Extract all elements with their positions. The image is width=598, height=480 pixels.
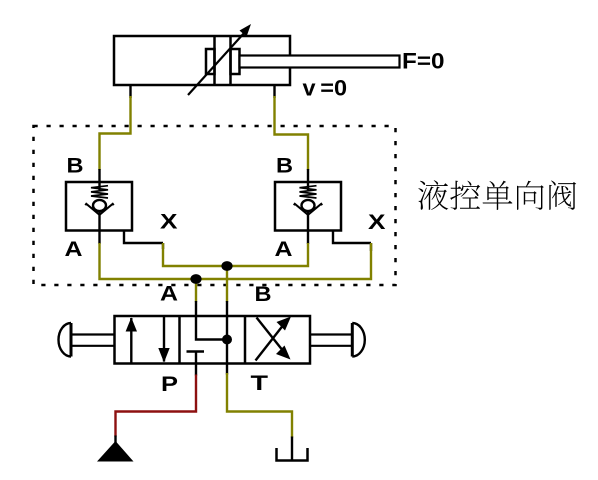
V1 ball — [93, 200, 106, 211]
right push-button actuator — [310, 323, 365, 357]
svg-text:A: A — [160, 283, 178, 306]
net A: V1 port A to V2 pilot X and valve port A — [100, 243, 372, 279]
left push-button actuator — [58, 323, 114, 357]
piston rod — [240, 56, 400, 68]
wire cylinder right port to valve V2 port B — [275, 85, 309, 183]
svg-text:T: T — [251, 372, 269, 395]
V2 port A stub — [307, 231, 309, 245]
V1 seat — [85, 204, 113, 215]
svg-text:X: X — [160, 211, 178, 234]
V2 seat — [294, 204, 322, 215]
cylinder body — [114, 36, 290, 85]
pilot check valve V1 box — [66, 182, 132, 231]
wire net B down to valve port B — [226, 266, 228, 302]
V1 line ball to port A — [98, 212, 100, 231]
dashed enclosure — [34, 126, 396, 285]
junction dot net B — [221, 261, 232, 271]
svg-text:X: X — [368, 211, 386, 234]
svg-text:P: P — [161, 373, 178, 396]
right position cross arrow A-T — [257, 318, 288, 357]
V1 pilot X stub — [124, 231, 163, 244]
svg-text:B: B — [276, 155, 293, 178]
V1 port A stub — [98, 231, 100, 245]
V2 line ball to port A — [307, 212, 309, 231]
tank symbol — [277, 448, 308, 461]
svg-text:F=0: F=0 — [402, 49, 445, 74]
pilot check valve V2 box — [275, 182, 341, 231]
V2 pilot X stub — [333, 231, 371, 244]
wire P to pump — [195, 364, 197, 376]
junction dot net A — [190, 274, 201, 284]
wire cylinder left port to valve V1 port B — [100, 85, 131, 183]
V2 spring — [300, 182, 317, 198]
svg-text:A: A — [65, 238, 83, 261]
net B: V1 pilot X to V2 port A and valve port B — [163, 243, 308, 266]
left position up arrow — [130, 318, 132, 364]
V2 ball — [302, 200, 315, 211]
pump pressure source triangle — [97, 441, 134, 462]
directional valve body — [115, 316, 311, 364]
piston — [206, 36, 240, 85]
wire net A down to valve port A — [195, 279, 197, 302]
wire black cap right pilot step — [370, 243, 372, 251]
centre position B-T line — [226, 316, 228, 364]
label 液控单向阀 — [418, 180, 576, 210]
left position down arrow — [163, 316, 165, 362]
centre junction dot — [222, 335, 232, 345]
svg-text:B: B — [67, 155, 84, 178]
svg-text:v =0: v =0 — [303, 76, 348, 101]
variable stroke arrow — [188, 24, 251, 95]
wire T to tank — [226, 364, 228, 375]
V1 spring — [91, 182, 108, 198]
svg-text:B: B — [255, 283, 272, 306]
centre position P blocked — [187, 352, 205, 364]
svg-text:A: A — [275, 238, 293, 261]
centre position A-B elbow — [196, 316, 227, 340]
right position cross arrow P-B — [256, 319, 289, 361]
wire black cap left pilot step — [162, 243, 164, 249]
